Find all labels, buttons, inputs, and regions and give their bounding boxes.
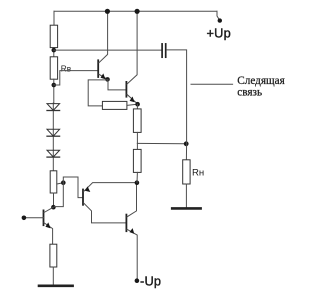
resistor R2 (Rв) (50, 57, 57, 79)
wire R4 top lead (136, 104, 138, 109)
transistor Q3 base bar (43, 210, 45, 225)
wire +Up drop (217, 11, 219, 19)
wire Q1 base jog (54, 71, 98, 85)
resistor R3 (50, 171, 57, 193)
node B (R2/diode junction) (52, 83, 57, 88)
wire diode chain (52, 103, 54, 171)
transistor Q1 emitter arrow (101, 73, 106, 79)
diode D3 (47, 150, 60, 157)
transistor Q5 collector lead (127, 184, 137, 217)
diode D2 (47, 129, 60, 136)
node E (output node) (135, 180, 140, 185)
wire R4 bottom lead (136, 132, 138, 143)
wire R5 bottom lead (136, 172, 138, 182)
wire Rn bottom lead (185, 184, 187, 207)
wire bypass down to node C (55, 183, 64, 207)
transistor Q4 emitter arrow (PNP) (85, 186, 90, 192)
transistor Q3 emitter arrow (45, 222, 50, 228)
transistor Q5 base bar (125, 215, 127, 232)
transistor Q5 emitter arrow (130, 228, 135, 234)
wire top supply rail (54, 10, 217, 12)
svg-text:связь: связь (237, 86, 262, 98)
wire Q1 emitter loop to Rh (88, 80, 107, 106)
wire R1-R2 link (53, 48, 55, 57)
svg-text:+Up: +Up (207, 25, 231, 40)
transistor Q4 emitter lead (84, 183, 135, 192)
transistor Q5 emitter lead (127, 229, 137, 279)
wire bootstrap left (node A to capacitor) (54, 49, 162, 51)
wire R3 side stub (57, 183, 64, 184)
resistor R4 (133, 109, 141, 132)
node -Up terminal (135, 278, 140, 283)
wire bootstrap right (capacitor to load tap) (167, 50, 187, 160)
ground G2 (39, 284, 73, 287)
resistor Rn (183, 160, 190, 184)
resistor R1 (50, 25, 57, 47)
wire R6 bottom lead (52, 267, 54, 285)
transistor Q1 base bar (97, 60, 99, 77)
node input terminal (22, 216, 27, 221)
svg-text:Следящая: Следящая (237, 75, 284, 87)
transistor Q3 collector lead (44, 207, 53, 212)
wire R1 top lead (53, 11, 55, 25)
transistor Q2 emitter lead (127, 94, 137, 103)
node rail dot 1 (105, 9, 110, 14)
node C (Q3 collector node) (51, 205, 56, 210)
svg-text:-Up: -Up (140, 274, 161, 289)
transistor Q2 base bar (125, 82, 127, 97)
node +Up terminal (218, 18, 222, 22)
node rail dot 2 (135, 9, 140, 14)
wire Q2 base feed (108, 79, 126, 90)
wire Q3 base lead (25, 217, 44, 219)
wire R5 top lead (136, 143, 138, 149)
transistor Q3 emitter lead (44, 223, 53, 244)
node A (R1/R2 divider, bootstrap tap) (52, 48, 57, 53)
transistor Q2 collector lead (127, 13, 137, 84)
wire R3 bottom lead (53, 193, 55, 207)
ground G1 (172, 207, 200, 210)
svg-text:Rв: Rв (61, 63, 72, 73)
transistor Q2 emitter arrow (130, 97, 135, 103)
resistor R5 (133, 149, 141, 172)
diode D1 (47, 104, 60, 111)
node G (Q2 emitter / output column top) (135, 102, 140, 107)
resistor R6 (50, 244, 57, 267)
svg-text:Rн: Rн (192, 167, 204, 178)
transistor Q1 emitter lead (99, 74, 108, 79)
node H (load tap) (184, 141, 189, 146)
transistor Q4 base bar (82, 190, 84, 205)
wire Rh right lead (127, 104, 138, 105)
node F (Q1 emitter) (105, 77, 110, 82)
transistor Q4 collector lead (84, 203, 126, 223)
transistor Q1 collector lead (99, 13, 108, 63)
wire output node horizontal (137, 142, 185, 144)
wire R2 bottom lead (53, 79, 55, 103)
wire callout leader (191, 83, 233, 85)
resistor R7 (horizontal) (102, 101, 127, 109)
wire bypass to Q4 base (63, 177, 83, 198)
node D (bypass junction) (61, 180, 66, 185)
capacitor C1 (162, 44, 166, 57)
